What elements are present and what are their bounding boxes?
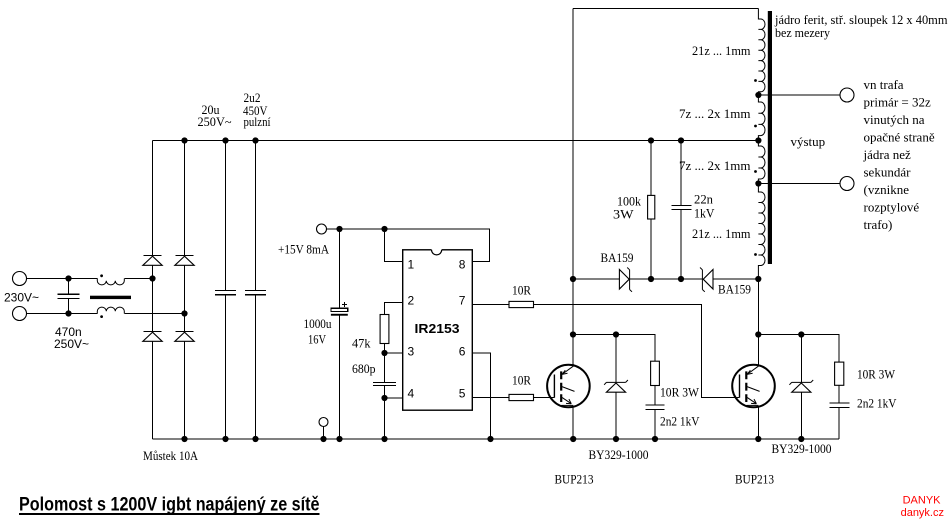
wire bottom input to choke: [27, 313, 98, 315]
node gnd cap 20u: [222, 436, 228, 442]
svg-text:10R: 10R: [512, 373, 531, 388]
transistor Q1 BUP213 left IGBT: [547, 364, 590, 407]
svg-text:primár = 32z: primár = 32z: [864, 95, 931, 110]
diode BY329-1000 left: [604, 335, 628, 440]
node transformer tap 3: [755, 180, 761, 186]
wire 10R to left IGBT gate: [534, 397, 555, 399]
wire ground rail: [153, 438, 840, 440]
svg-text:2n2 1kV: 2n2 1kV: [857, 396, 897, 411]
capacitor C 1000u 16V electrolytic: [331, 229, 348, 439]
terminal input N (230V~ neutral): [13, 307, 27, 321]
svg-text:7z ... 2x 1mm: 7z ... 2x 1mm: [679, 158, 751, 173]
node transformer tap 1: [755, 92, 761, 98]
capacitor C 22n 1kV column: [672, 141, 692, 280]
capacitor C 2u2 450V pulzni: [245, 141, 266, 440]
wire +15V rail to pin8: [327, 229, 490, 262]
bridge diode D3 bottom-left: [143, 332, 162, 342]
terminal output 2: [840, 177, 854, 191]
node +15V cap 1000u: [336, 226, 342, 232]
wire pin3 stub: [385, 352, 403, 354]
transformer core bar: [768, 11, 772, 264]
svg-text:1kV: 1kV: [694, 206, 715, 221]
wire tap1 to output terminal: [758, 94, 840, 96]
svg-text:(vznikne: (vznikne: [864, 182, 910, 197]
svg-text:250V~: 250V~: [54, 337, 89, 351]
svg-text:trafo): trafo): [864, 217, 893, 232]
svg-text:opačné straně: opačné straně: [864, 130, 935, 145]
node AC input right on bridge: [181, 310, 187, 316]
node rail bridge right: [181, 137, 187, 143]
node gnd bridge right: [181, 436, 187, 442]
svg-text:1000u: 1000u: [304, 316, 332, 331]
capacitor C 470n 250V~: [58, 279, 80, 314]
wire snubber line right: [758, 335, 839, 363]
capacitor C 2n2 1kV right snubber: [829, 403, 849, 407]
diode BY329-1000 right: [789, 335, 813, 440]
node BA159 right anode: [755, 276, 761, 282]
svg-text:BY329-1000: BY329-1000: [589, 447, 649, 462]
wire right IGBT emitter to gnd: [757, 405, 759, 439]
wire pin6 VS to gnd: [472, 353, 490, 439]
node pin3 CT: [381, 350, 387, 356]
svg-text:jádra než: jádra než: [863, 147, 912, 162]
node gnd cap 2u2: [252, 436, 258, 442]
capacitor C 20u 250V~: [215, 141, 236, 440]
transformer phase dot 4: [754, 253, 757, 256]
svg-text:BY329-1000: BY329-1000: [772, 441, 832, 456]
bridge diode D4 bottom-right: [175, 332, 194, 342]
svg-text:16V: 16V: [308, 332, 326, 347]
svg-text:3W: 3W: [613, 207, 634, 222]
node rail 100k: [648, 137, 654, 143]
node gnd right IGBT emitter: [755, 436, 761, 442]
wire pin2 to RT resistor: [385, 303, 403, 315]
svg-text:bez mezery: bez mezery: [775, 25, 830, 40]
svg-text:3: 3: [408, 345, 415, 359]
transistor Q2 BUP213 right IGBT: [732, 364, 775, 407]
node junction 470n top: [65, 275, 71, 281]
choke core bar: [90, 296, 131, 299]
choke phase dot bottom: [100, 315, 103, 318]
wire 47k to 680p: [384, 344, 386, 382]
wire pin4 stub: [385, 397, 403, 399]
wire snubber line left: [573, 335, 655, 362]
svg-text:2n2 1kV: 2n2 1kV: [660, 414, 700, 429]
resistor R 100k 3W column: [648, 141, 655, 280]
svg-text:danyk.cz: danyk.cz: [901, 507, 944, 519]
svg-text:680p: 680p: [352, 361, 376, 376]
wire pin1 drop: [385, 229, 403, 262]
node AC input left on bridge: [149, 275, 155, 281]
svg-text:10R 3W: 10R 3W: [857, 367, 896, 382]
svg-text:+15V 8mA: +15V 8mA: [278, 242, 330, 257]
node gnd left IGBT emitter: [570, 436, 576, 442]
svg-text:6: 6: [459, 345, 466, 359]
node gnd pin4 column: [381, 436, 387, 442]
node clamp 22n: [678, 276, 684, 282]
svg-text:BA159: BA159: [601, 250, 634, 265]
svg-text:21z ... 1mm: 21z ... 1mm: [692, 226, 751, 241]
inductor choke bottom winding: [97, 307, 124, 313]
wire snubber left mid: [654, 386, 656, 405]
diode BA159 left: [619, 268, 632, 292]
svg-text:8: 8: [459, 258, 466, 272]
svg-text:230V~: 230V~: [4, 291, 39, 305]
node junction 470n bottom: [65, 310, 71, 316]
svg-text:47k: 47k: [352, 336, 371, 351]
bridge diode D1 top-left: [143, 256, 162, 266]
node snubber left top: [570, 331, 576, 337]
node gnd pin6: [487, 436, 493, 442]
capacitor C 680p: [373, 382, 396, 385]
svg-text:Můstek 10A: Můstek 10A: [143, 448, 199, 463]
node gnd BY329 right: [798, 436, 804, 442]
terminal output 1: [840, 88, 854, 102]
svg-text:2: 2: [408, 294, 415, 308]
label vn trafa block: [863, 77, 935, 232]
svg-text:5: 5: [459, 387, 466, 401]
svg-text:7: 7: [459, 294, 466, 308]
terminal input L (230V~ live): [13, 272, 27, 286]
node transformer tap mid rail: [755, 137, 761, 143]
transformer phase dot 1: [754, 79, 757, 82]
terminal 0V: [319, 418, 328, 440]
terminal +15V: [317, 224, 327, 234]
wire pin5 LO: [472, 397, 509, 399]
svg-text:7z ... 2x 1mm: 7z ... 2x 1mm: [679, 106, 751, 121]
resistor R 10R 3W right snubber: [835, 362, 844, 385]
svg-text:IR2153: IR2153: [415, 321, 460, 336]
op-amp U1 IR2153 body: [403, 250, 473, 410]
wire BA159 row right segment: [713, 278, 758, 280]
wire left IGBT emitter to gnd: [572, 405, 574, 439]
transformer phase dot 3: [754, 170, 757, 173]
bridge diode D2 top-right: [175, 256, 194, 266]
svg-text:pulzní: pulzní: [244, 114, 271, 129]
wire top choke to bridge: [125, 278, 153, 280]
svg-text:21z ... 1mm: 21z ... 1mm: [692, 43, 751, 58]
wire top input to choke: [27, 278, 98, 280]
svg-text:22n: 22n: [694, 192, 713, 207]
wire bottom choke to bridge: [125, 313, 185, 315]
wire snubber right mid: [838, 385, 840, 402]
svg-text:10R 3W: 10R 3W: [660, 385, 700, 400]
wire snubber right bottom: [838, 408, 840, 439]
node BY329 right top: [798, 331, 804, 337]
wire 680p to gnd: [384, 386, 386, 439]
node gnd 1000u: [336, 436, 342, 442]
node gnd BY329 left: [613, 436, 619, 442]
node gnd 0V terminal: [320, 436, 326, 442]
wire BA159 row middle segment: [630, 278, 702, 280]
wire tap3 to output terminal: [758, 183, 840, 185]
node BA159 left anode: [570, 276, 576, 282]
capacitor C 2n2 1kV left snubber: [645, 405, 664, 409]
node snubber right top: [755, 331, 761, 337]
wire BA159 row left segment: [573, 278, 619, 280]
svg-text:výstup: výstup: [791, 134, 826, 149]
node rail 22n: [678, 137, 684, 143]
wire transformer top loop: [573, 8, 758, 10]
svg-text:vinutých na: vinutých na: [864, 112, 925, 127]
svg-text:4: 4: [408, 387, 415, 401]
node rail cap 20u: [222, 137, 228, 143]
svg-text:Polomost s 1200V igbt napájený: Polomost s 1200V igbt napájený ze sítě: [19, 495, 320, 516]
svg-text:10R: 10R: [512, 283, 531, 298]
node +15V pin1: [381, 226, 387, 232]
svg-text:BUP213: BUP213: [555, 471, 594, 486]
svg-text:BUP213: BUP213: [735, 471, 774, 486]
node rail cap 2u2: [252, 137, 258, 143]
svg-text:DANYK: DANYK: [903, 495, 942, 507]
bridge rectifier left column wire: [152, 141, 154, 440]
resistor R 10R gate lower: [509, 394, 534, 400]
transformer phase dot 2: [754, 125, 757, 128]
resistor R 10R 3W left snubber: [651, 361, 660, 385]
resistor R 10R gate upper: [509, 301, 534, 307]
choke phase dot top: [100, 274, 103, 277]
wire right IGBT collector column: [757, 279, 759, 365]
wire DC+ rail: [153, 140, 759, 142]
svg-text:BA159: BA159: [718, 282, 751, 297]
svg-text:vn trafa: vn trafa: [864, 77, 904, 92]
svg-text:sekundár: sekundár: [864, 165, 912, 180]
wire left IGBT collector column: [572, 9, 574, 365]
wire snubber left bottom: [654, 410, 656, 439]
wire 10R to right IGBT gate: [534, 305, 740, 398]
node gnd snubber left: [652, 436, 658, 442]
bridge rectifier right column wire: [184, 141, 186, 440]
diode BA159 right: [700, 268, 713, 292]
resistor R 47k: [380, 315, 389, 344]
wire pin7 HO: [472, 304, 509, 306]
node BY329 left top: [613, 331, 619, 337]
node clamp 100k: [648, 276, 654, 282]
node pin4 COM: [381, 395, 387, 401]
svg-text:rozptylové: rozptylové: [864, 200, 920, 215]
transformer T1 primary winding: [758, 9, 765, 280]
svg-text:1: 1: [408, 258, 415, 272]
svg-text:250V~: 250V~: [198, 114, 232, 129]
title Polomost s 1200V igbt napajeny ze site: [19, 495, 320, 516]
inductor choke top winding: [97, 279, 124, 285]
